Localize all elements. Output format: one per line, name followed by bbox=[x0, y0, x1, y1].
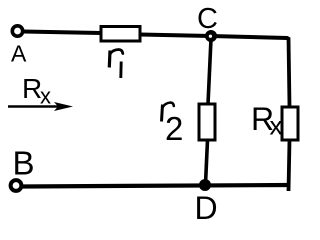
label A bbox=[11, 41, 27, 67]
wire right branch lower bbox=[289, 140, 290, 191]
svg-text:B: B bbox=[13, 145, 35, 182]
arrow under Rx annotation bbox=[8, 102, 73, 111]
label r1 bbox=[109, 50, 123, 79]
resistor Rx bbox=[282, 107, 298, 140]
wire middle branch lower r2 to D bbox=[206, 140, 208, 184]
label Rx (measured resistance annotation) bbox=[22, 73, 51, 109]
svg-text:2: 2 bbox=[165, 110, 183, 147]
wire middle branch upper C to r2 bbox=[208, 39, 211, 104]
svg-text:x: x bbox=[40, 84, 51, 109]
resistor r2 bbox=[199, 104, 215, 140]
wire r1 to node C bbox=[140, 35, 211, 37]
label B bbox=[13, 145, 35, 182]
label Rx (right resistor) bbox=[251, 101, 283, 141]
svg-text:D: D bbox=[195, 190, 218, 226]
wire top segment A to r1 bbox=[23, 32, 101, 34]
label D bbox=[195, 190, 218, 226]
node C junction dot bbox=[205, 30, 217, 42]
label C bbox=[197, 3, 218, 35]
svg-text:x: x bbox=[270, 111, 283, 141]
resistor r1 bbox=[101, 27, 140, 42]
terminal B bbox=[11, 180, 22, 191]
svg-text:C: C bbox=[197, 3, 218, 35]
wire right branch upper bbox=[289, 38, 290, 108]
svg-text:A: A bbox=[11, 41, 27, 67]
wire bottom B to D to corner bbox=[22, 185, 290, 187]
wire node C to top-right corner bbox=[211, 36, 289, 39]
label r2 bbox=[162, 103, 184, 148]
node D junction dot bbox=[199, 179, 211, 191]
terminal A bbox=[12, 26, 22, 36]
